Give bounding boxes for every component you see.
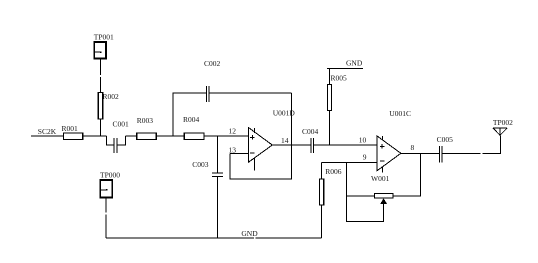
svg-text:GND: GND (241, 229, 258, 238)
wire (105, 198, 107, 239)
svg-text:U001C: U001C (389, 109, 411, 118)
svg-text:GND: GND (346, 58, 363, 67)
svg-text:SC2K: SC2K (38, 127, 57, 136)
svg-text:10: 10 (359, 136, 367, 145)
resistor R004 (183, 115, 204, 140)
svg-text:TP001: TP001 (94, 32, 114, 41)
ground GND rail (106, 229, 322, 238)
svg-text:TP002: TP002 (493, 118, 513, 127)
wire (291, 93, 293, 145)
wire (99, 59, 101, 93)
svg-text:8: 8 (411, 143, 415, 152)
svg-text:C001: C001 (113, 119, 130, 128)
wire (401, 152, 440, 154)
svg-text:TP000: TP000 (100, 170, 120, 179)
resistor R003 (137, 116, 157, 140)
resistor R005 (327, 74, 347, 111)
wire (99, 119, 101, 136)
wire (31, 135, 64, 137)
wire (204, 135, 249, 137)
wire (329, 111, 331, 146)
capacitor C004 (302, 127, 319, 153)
wire gap artifacts (99, 75, 482, 239)
op-amp U001D (248, 109, 295, 171)
svg-text:U001D: U001D (273, 109, 296, 118)
svg-text:C002: C002 (204, 59, 221, 68)
wire (329, 68, 331, 84)
capacitor C003 (192, 136, 223, 238)
test point TP001 (94, 32, 114, 58)
wire (322, 161, 378, 163)
resistor R002 (98, 92, 119, 119)
svg-text:R001: R001 (62, 124, 79, 133)
svg-text:R004: R004 (183, 115, 200, 124)
resistor R006 (319, 162, 341, 238)
capacitor C002 (173, 59, 292, 136)
wire (230, 145, 292, 179)
svg-text:R003: R003 (137, 116, 154, 125)
wire (125, 135, 136, 137)
wire (156, 135, 184, 137)
svg-text:C004: C004 (302, 127, 319, 136)
op-amp U001C (377, 109, 411, 173)
test point TP002 (493, 118, 513, 136)
svg-text:R006: R006 (325, 167, 342, 176)
test point TP000 (100, 170, 120, 197)
wire (314, 144, 378, 146)
svg-text:14: 14 (281, 136, 289, 145)
wire (272, 144, 311, 146)
ground GND (327, 58, 363, 68)
svg-text:C003: C003 (192, 160, 209, 169)
potentiometer W001 (346, 153, 420, 221)
svg-text:W001: W001 (371, 174, 390, 183)
svg-text:12: 12 (229, 126, 237, 135)
svg-text:R002: R002 (103, 92, 120, 101)
wire (83, 135, 107, 137)
capacitor C001 (107, 119, 130, 153)
svg-text:9: 9 (363, 152, 367, 161)
svg-text:C005: C005 (437, 135, 454, 144)
svg-text:13: 13 (229, 145, 237, 154)
wire (442, 135, 500, 153)
capacitor C005 (437, 135, 454, 162)
resistor R001 (62, 124, 83, 140)
svg-text:R005: R005 (331, 74, 348, 83)
